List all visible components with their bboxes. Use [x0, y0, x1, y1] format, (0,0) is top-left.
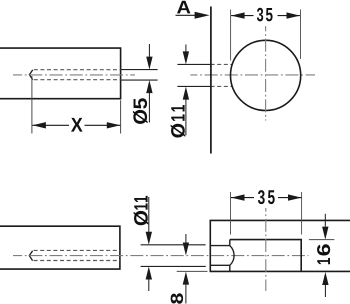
housing vertical centerline (bottom): [265, 208, 267, 291]
dim 16 lower arrow: [322, 272, 328, 297]
label O11 bottom: 1 (rotated): [134, 196, 147, 202]
centerline (bottom view axis): [13, 255, 309, 257]
housing left steps: [229, 240, 231, 272]
dim X line + arrows: [32, 122, 120, 128]
shaft hidden continuation to circle: [211, 64, 233, 86]
label 16: 6 (rotated): [317, 244, 330, 255]
centerline (top view axis, right segment): [190, 74, 315, 76]
rod body (top view): [0, 48, 121, 99]
label O11 top: 1 (rotated): [171, 114, 184, 121]
label O11 top: 1 (rotated): [171, 105, 184, 112]
section arrow A: [176, 12, 210, 19]
shaft Ø11 lines (bottom view): [141, 245, 206, 267]
label O5: O (rotated): [133, 110, 148, 124]
label X: [71, 118, 83, 132]
dim 35 ext lines (bottom): [231, 192, 302, 235]
hole Ø11 in housing: [210, 246, 230, 266]
dim Ø11 up arrow (bottom view): [146, 267, 152, 292]
dim Ø11 upper arrow (top view): [183, 45, 189, 65]
dim Ø5 upper arrow: [146, 44, 152, 70]
dim 35 line + arrows (top): [231, 12, 300, 18]
dim 8 upper arrow: [183, 234, 189, 256]
dim X ext lines: [32, 76, 121, 134]
hidden drill hole in rod (dashed): [34, 70, 121, 80]
drill cone point: [29, 70, 32, 80]
drill cone point (bottom): [29, 251, 32, 261]
dim Ø11 lower arrow (top view): [183, 87, 189, 136]
rod body (bottom view): [0, 226, 120, 269]
dim 16 ext line: [309, 239, 334, 241]
pin Ø5 lines: [121, 70, 158, 81]
dim Ø11 down arrow (bottom view): [146, 197, 152, 245]
hole end arc: [230, 246, 234, 266]
label O5: 5 (rotated): [134, 98, 148, 109]
dim 8 lower arrow: [183, 272, 189, 304]
dim Ø5 lower arrow: [146, 80, 152, 122]
circle vertical centerline: [265, 26, 267, 121]
panel (bottom view): [210, 220, 350, 271]
label 35 top: 5: [266, 8, 273, 21]
dim 8 ext line: [177, 270, 208, 272]
housing circle Ø35: [231, 40, 301, 110]
section line A: [210, 7, 212, 154]
label O11 bottom: O (rotated): [134, 211, 149, 225]
dim 16 upper arrow: [322, 214, 328, 240]
shaft Ø11 lines (top view): [177, 64, 210, 86]
label 16: 1 (rotated): [317, 258, 330, 264]
label 8 (rotated): [171, 293, 183, 303]
label 35 top: 3: [257, 8, 263, 22]
housing body (section): [230, 240, 301, 272]
label O11 top: O (rotated): [171, 124, 186, 138]
label 35 bottom: 3: [258, 190, 265, 204]
dim 35 ext lines (top): [231, 10, 301, 61]
dim 35 line + arrows (bottom): [231, 194, 302, 200]
label 35 bottom: 5: [268, 190, 275, 204]
hidden drill hole in rod (dashed, bottom): [34, 250, 120, 260]
label A: [177, 1, 190, 14]
label O11 bottom: 1 (rotated): [134, 203, 147, 209]
centerline (top view axis): [13, 74, 135, 76]
